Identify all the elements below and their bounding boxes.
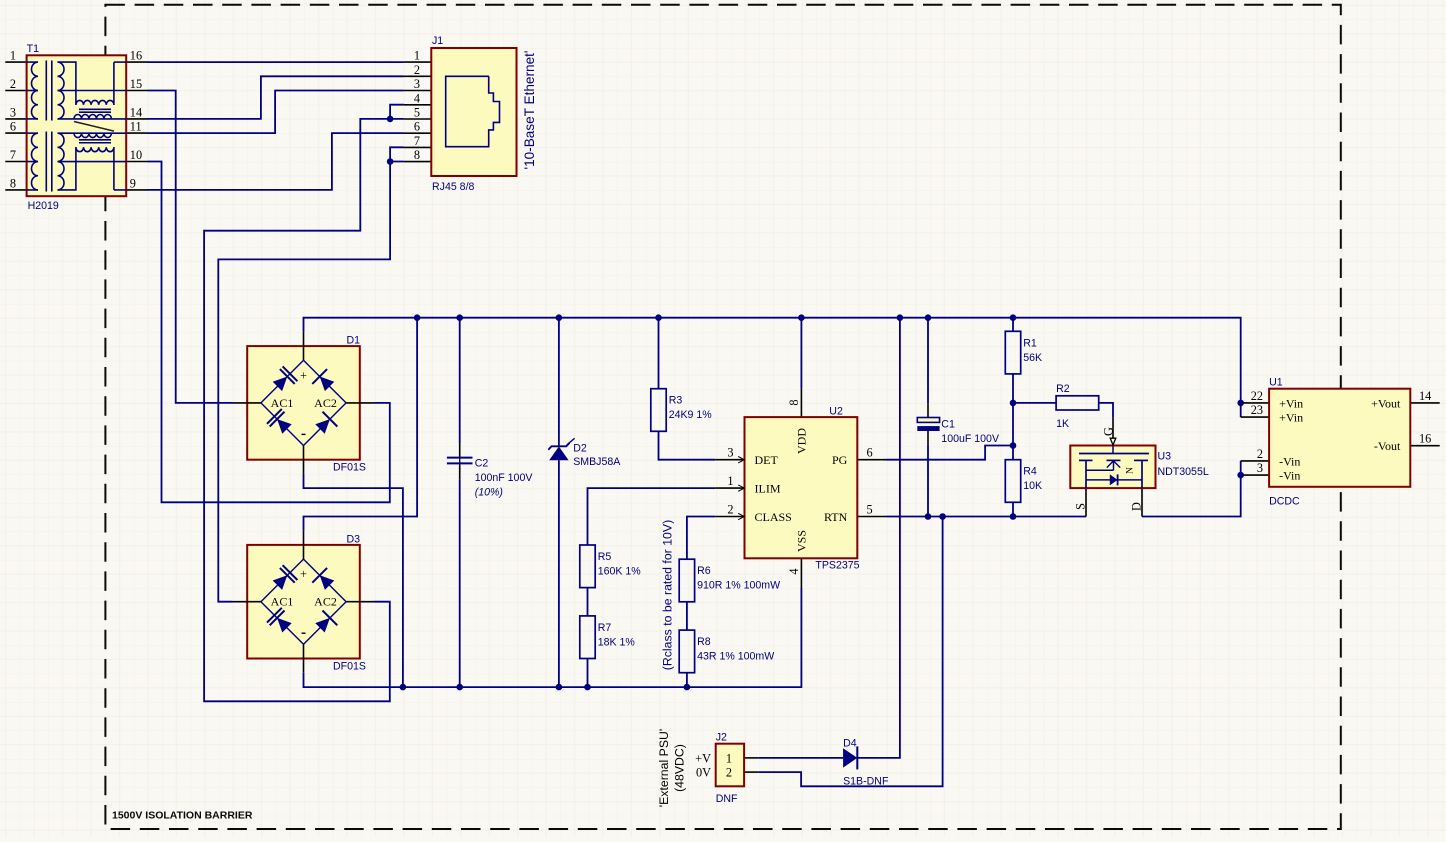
wire R1 R2 R4 chain — [1012, 318, 1014, 332]
wire capacitor C2 vertical — [459, 318, 461, 443]
svg-text:10: 10 — [130, 148, 142, 162]
svg-text:U2: U2 — [829, 405, 843, 417]
svg-text:DCDC: DCDC — [1269, 496, 1300, 508]
U3 gate arrow — [1110, 438, 1116, 445]
svg-text:16: 16 — [1419, 432, 1431, 446]
U2 pin stubs — [715, 459, 744, 461]
svg-text:15: 15 — [130, 77, 142, 91]
wire zener D2 vertical — [558, 318, 560, 447]
resistor R7 18K 1% — [580, 616, 595, 659]
svg-text:43R 1% 100mW: 43R 1% 100mW — [697, 651, 774, 663]
svg-text:S: S — [1073, 503, 1087, 510]
svg-text:(Rclass to be rated for 10V): (Rclass to be rated for 10V) — [661, 520, 675, 670]
resistor R4 10K — [1005, 460, 1020, 503]
svg-text:16: 16 — [130, 49, 142, 63]
svg-text:5: 5 — [867, 503, 873, 517]
svg-text:U3: U3 — [1158, 451, 1172, 463]
zener diode D2 SMBJ58A — [548, 438, 574, 460]
wire U2 CLASS to R6 R8 — [687, 517, 715, 560]
wire J2 pin2 to RTN rail — [758, 517, 942, 787]
junction dots J1 pair joins — [387, 116, 394, 123]
junction dots top VDD rail — [414, 314, 421, 321]
U1 pin stubs — [1241, 402, 1269, 404]
connector J1 RJ45 8/8 — [431, 48, 516, 176]
svg-text:22: 22 — [1251, 389, 1263, 403]
op-amp U2 TPS2375 PoE controller — [745, 417, 858, 558]
svg-text:1: 1 — [727, 474, 733, 488]
resistor R3 24K9 1% — [651, 389, 666, 432]
svg-text:14: 14 — [1419, 389, 1431, 403]
svg-text:T1: T1 — [27, 43, 39, 55]
svg-text:160K 1%: 160K 1% — [598, 566, 642, 578]
svg-text:3: 3 — [727, 446, 733, 460]
U2 input arrows — [738, 457, 744, 463]
wire T1 pin16 to J1 pin1 — [148, 61, 404, 63]
svg-text:ILIM: ILIM — [755, 482, 781, 496]
bridge rectifier D3 DF01S — [233, 531, 375, 673]
svg-text:2: 2 — [726, 766, 732, 780]
wire external PSU D4 to top rail — [758, 757, 843, 759]
svg-text:J2: J2 — [716, 732, 727, 744]
IC U1 DCDC converter — [1269, 389, 1410, 487]
svg-text:DET: DET — [755, 453, 779, 467]
svg-text:2: 2 — [1257, 447, 1263, 461]
capacitor C1 100uF — [917, 418, 939, 432]
wire J1 pin8 to D3 AC1 — [218, 162, 404, 602]
svg-text:J1: J1 — [432, 35, 443, 47]
svg-text:G: G — [1101, 427, 1115, 436]
svg-text:D: D — [1129, 502, 1143, 511]
svg-text:8: 8 — [787, 399, 801, 405]
connector J2 DNF external PSU — [716, 744, 744, 787]
wire T1 pin9 to J1 pin6 — [148, 133, 404, 190]
svg-text:18K 1%: 18K 1% — [598, 636, 636, 648]
C2 pin stubs — [459, 443, 461, 458]
resistor R2 1K — [1056, 396, 1099, 410]
svg-text:3: 3 — [1257, 461, 1263, 475]
U3 pin stubs — [1112, 417, 1114, 438]
svg-text:DF01S: DF01S — [333, 462, 366, 474]
J1 pin stubs — [404, 61, 431, 63]
svg-text:1K: 1K — [1056, 418, 1069, 430]
svg-text:1500V ISOLATION BARRIER: 1500V ISOLATION BARRIER — [112, 810, 253, 822]
svg-text:5: 5 — [414, 106, 420, 120]
T1 left pin stubs — [5, 61, 26, 63]
svg-text:DNF: DNF — [716, 793, 738, 805]
wire T1 pin11 to J1 pin3 — [148, 91, 404, 134]
svg-text:NDT3055L: NDT3055L — [1158, 466, 1209, 478]
svg-text:R5: R5 — [598, 551, 612, 563]
wire RTN rail U3 drain to U1 minus Vin — [1142, 461, 1241, 517]
svg-text:R3: R3 — [669, 395, 683, 407]
wire VSS bottom rail from D3 minus to U2 VSS — [304, 588, 802, 687]
wire RTN rail U2 to U3 source — [887, 516, 1087, 518]
svg-text:0V: 0V — [696, 766, 711, 780]
svg-text:6: 6 — [10, 120, 16, 134]
svg-text:VSS: VSS — [795, 530, 809, 552]
svg-text:910R 1% 100mW: 910R 1% 100mW — [697, 580, 780, 592]
svg-text:AC2: AC2 — [314, 595, 337, 609]
svg-text:+Vin: +Vin — [1279, 396, 1303, 410]
svg-text:PG: PG — [832, 453, 848, 467]
svg-text:1: 1 — [414, 49, 420, 63]
wire capacitor C1 vertical — [927, 318, 929, 404]
svg-text:1: 1 — [726, 751, 732, 765]
svg-text:'External PSU': 'External PSU' — [657, 729, 671, 808]
svg-text:4: 4 — [414, 91, 420, 105]
wire J1 pin4 branch — [390, 105, 404, 119]
svg-text:AC1: AC1 — [271, 396, 294, 410]
svg-text:+V: +V — [695, 751, 711, 765]
svg-text:-Vout: -Vout — [1374, 439, 1401, 453]
wire U2 PG to R1 R4 node — [887, 446, 1014, 460]
svg-text:CLASS: CLASS — [755, 510, 792, 524]
svg-text:2: 2 — [414, 63, 420, 77]
J2 pin stubs — [744, 757, 758, 759]
resistor R1 56K — [1005, 331, 1020, 374]
transistor U3 NDT3055L MOSFET — [1070, 446, 1155, 489]
svg-text:24K9 1%: 24K9 1% — [669, 409, 713, 421]
svg-text:C2: C2 — [475, 457, 489, 469]
wire D1 minus to VSS rail — [304, 474, 403, 687]
svg-text:'10-BaseT Ethernet': '10-BaseT Ethernet' — [522, 50, 537, 169]
svg-text:TPS2375: TPS2375 — [815, 559, 859, 571]
svg-text:-Vin: -Vin — [1279, 469, 1300, 483]
svg-text:10K: 10K — [1023, 480, 1042, 492]
svg-text:R8: R8 — [697, 636, 711, 648]
svg-text:RJ45 8/8: RJ45 8/8 — [432, 181, 475, 193]
svg-text:100uF 100V: 100uF 100V — [941, 433, 1000, 445]
svg-text:+: + — [300, 368, 307, 382]
svg-text:2: 2 — [727, 503, 733, 517]
svg-text:(48VDC): (48VDC) — [673, 744, 687, 792]
svg-text:8: 8 — [414, 148, 420, 162]
svg-text:+Vin: +Vin — [1279, 411, 1303, 425]
svg-text:14: 14 — [130, 105, 142, 119]
svg-text:7: 7 — [10, 148, 16, 162]
svg-text:C1: C1 — [941, 418, 955, 430]
wire U2 ILIM to R5 R7 divider — [588, 488, 716, 545]
svg-text:AC2: AC2 — [314, 396, 337, 410]
wire J1 pin5 to D3 AC2 — [204, 119, 404, 701]
svg-text:RTN: RTN — [824, 510, 848, 524]
wire T1 pin15 to D1 AC1 — [148, 91, 233, 403]
svg-text:4: 4 — [787, 568, 801, 574]
wire R3 to top rail and U2 DET — [658, 318, 660, 389]
wire R2 branch to U3 gate — [1013, 402, 1056, 404]
svg-text:R6: R6 — [697, 565, 711, 577]
resistor R6 910R 1% 100mW — [679, 559, 694, 602]
diode D4 S1B-DNF — [843, 746, 857, 769]
svg-text:R4: R4 — [1023, 466, 1037, 478]
svg-text:100nF 100V: 100nF 100V — [475, 472, 534, 484]
svg-text:11: 11 — [130, 120, 142, 134]
svg-text:S1B-DNF: S1B-DNF — [843, 775, 889, 787]
svg-text:D1: D1 — [347, 335, 361, 347]
junction dots U1 input pins — [1237, 400, 1244, 407]
svg-text:VDD: VDD — [795, 428, 809, 454]
svg-text:56K: 56K — [1023, 352, 1042, 364]
svg-text:8: 8 — [10, 176, 16, 190]
svg-text:+: + — [300, 567, 307, 581]
svg-text:2: 2 — [10, 77, 16, 91]
svg-text:-Vin: -Vin — [1279, 454, 1300, 468]
junction dots VSS rail — [400, 684, 407, 691]
bridge rectifier D1 DF01S — [233, 332, 375, 474]
svg-text:AC1: AC1 — [271, 595, 294, 609]
svg-text:D3: D3 — [347, 534, 361, 546]
svg-text:SMBJ58A: SMBJ58A — [573, 456, 621, 468]
svg-text:3: 3 — [10, 105, 16, 119]
T1 right pin stubs — [126, 61, 147, 63]
svg-text:7: 7 — [414, 134, 420, 148]
C1 pin stubs — [927, 403, 929, 417]
svg-text:(10%): (10%) — [475, 486, 503, 498]
wire J1 pin7 branch — [390, 147, 404, 161]
svg-text:R7: R7 — [598, 622, 612, 634]
svg-text:DF01S: DF01S — [333, 661, 366, 673]
svg-text:U1: U1 — [1269, 377, 1283, 389]
junction dots R1 R2 node — [1010, 400, 1017, 407]
wire VDD top rail from D1 plus to U1 — [304, 318, 1241, 417]
svg-text:3: 3 — [414, 77, 420, 91]
svg-text:H2019: H2019 — [28, 200, 59, 212]
wire T1 pin14 to J1 pin2 — [148, 76, 404, 119]
svg-text:D2: D2 — [573, 443, 587, 455]
svg-text:R2: R2 — [1056, 383, 1070, 395]
svg-text:N: N — [1126, 467, 1136, 474]
wire U2 VDD pin8 to top rail — [800, 318, 802, 389]
capacitor C2 — [447, 458, 473, 464]
svg-text:D4: D4 — [843, 738, 857, 750]
resistor R8 43R 1% 100mW — [679, 630, 694, 673]
svg-text:+Vout: +Vout — [1371, 396, 1401, 410]
svg-text:6: 6 — [867, 446, 873, 460]
wire T1 pin10 to D1 AC2 — [148, 162, 390, 503]
transformer T1 H2019 — [27, 55, 127, 196]
svg-text:6: 6 — [414, 120, 420, 134]
svg-text:R1: R1 — [1023, 337, 1037, 349]
resistor R5 160K 1% — [580, 545, 595, 588]
wire D3 plus to top rail — [304, 318, 418, 531]
junction dots RTN rail — [925, 513, 932, 520]
svg-text:23: 23 — [1251, 403, 1263, 417]
svg-text:1: 1 — [10, 49, 16, 63]
svg-text:9: 9 — [130, 176, 136, 190]
